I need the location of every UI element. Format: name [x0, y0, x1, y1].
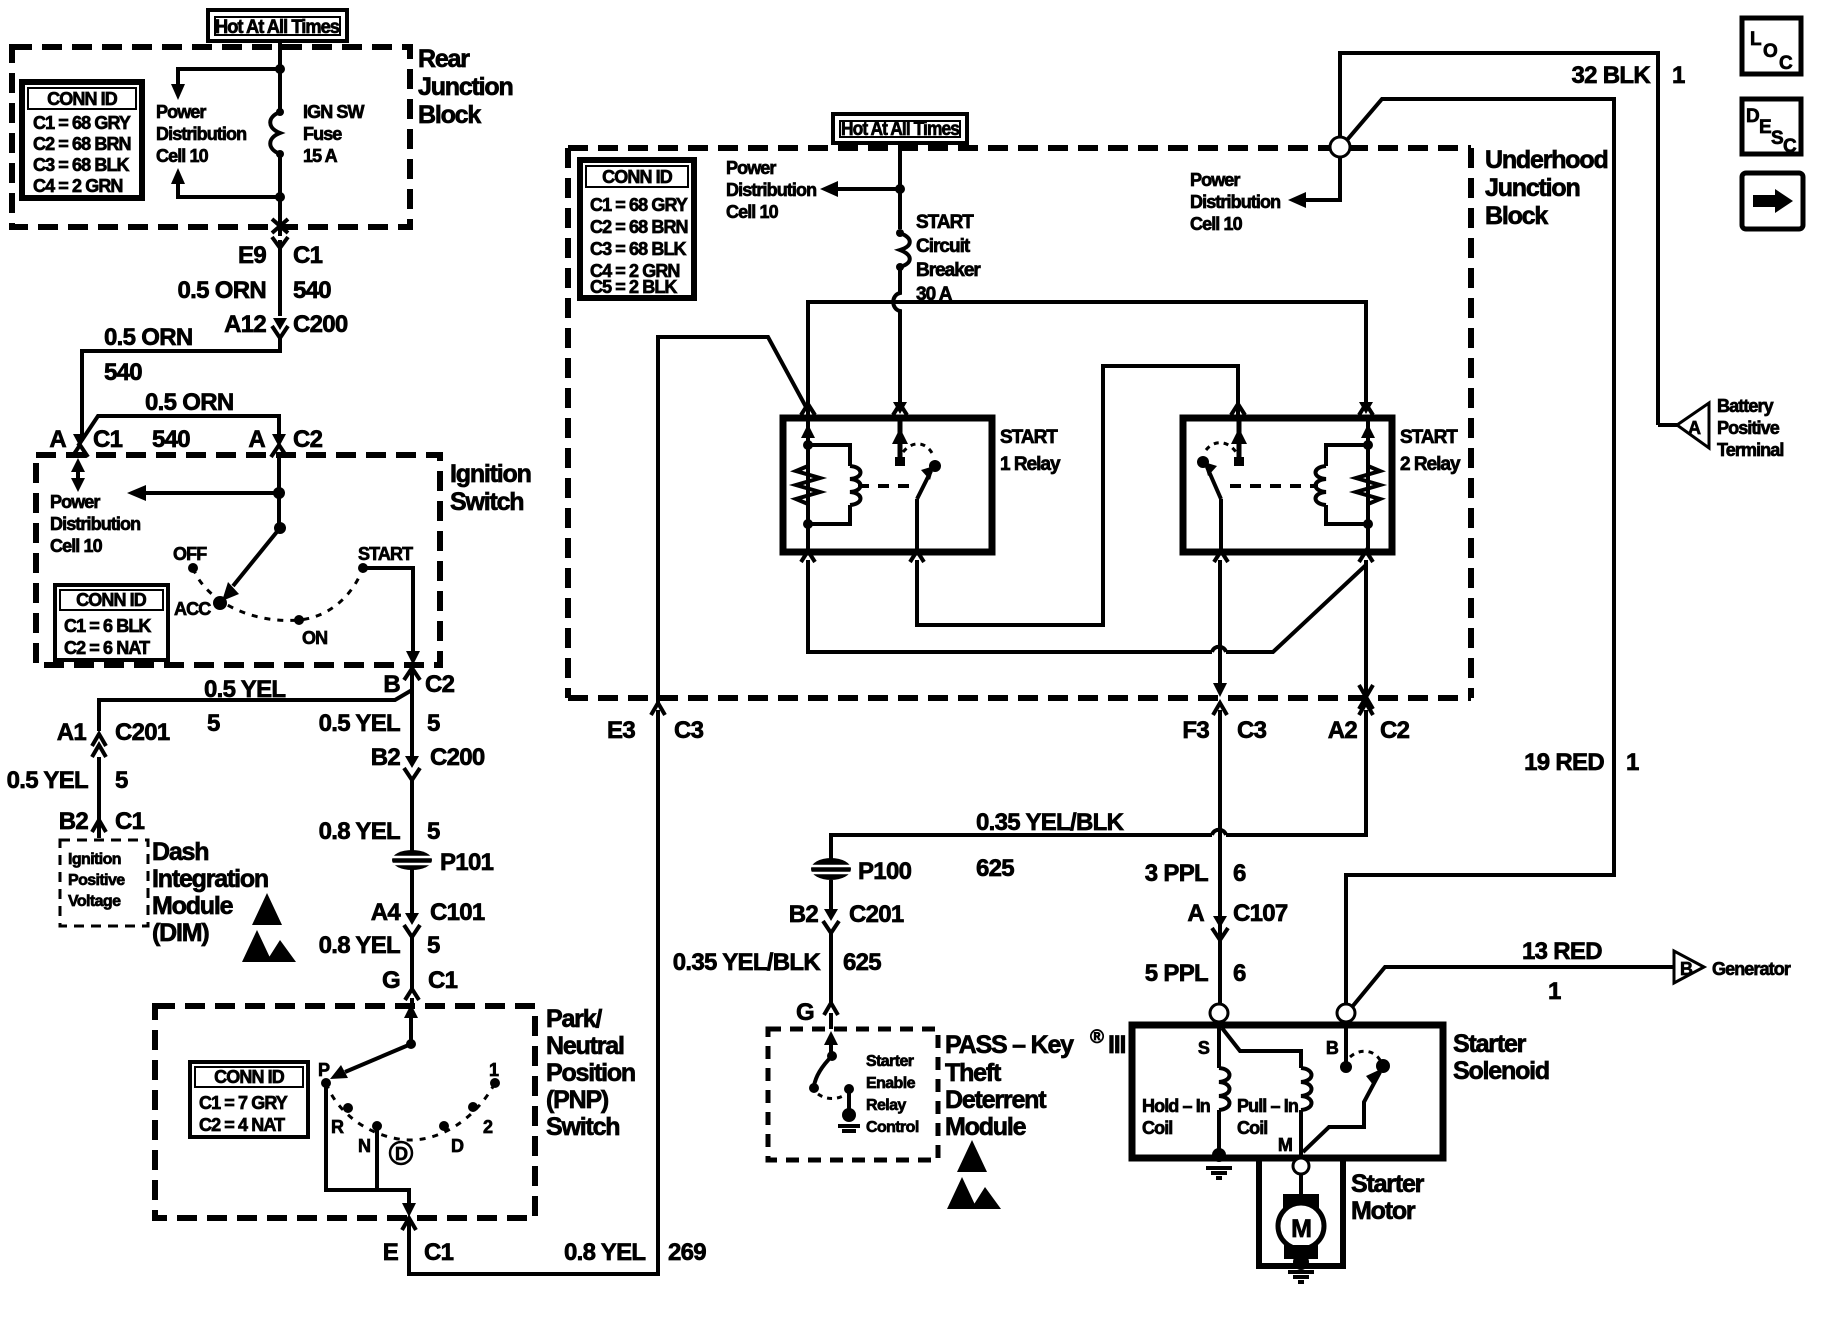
svg-text:Position: Position [546, 1059, 635, 1087]
label START 1 Relay [1000, 427, 1061, 475]
forward arrow reference box [1742, 173, 1803, 229]
label Underhood Junction Block [1485, 146, 1608, 230]
svg-text:E3: E3 [607, 717, 635, 744]
arrow: to power distribution (underhood) [820, 181, 900, 197]
svg-text:Distribution: Distribution [50, 514, 140, 534]
label Power Distribution Cell 10 (ignition) [50, 492, 140, 556]
svg-text:Terminal: Terminal [1717, 440, 1784, 460]
PASS-Key dashed box [768, 1029, 938, 1160]
svg-text:Module: Module [945, 1113, 1027, 1141]
svg-text:D: D [395, 1144, 408, 1164]
svg-text:Cell 10: Cell 10 [50, 536, 103, 556]
svg-text:C1: C1 [115, 808, 145, 835]
svg-text:B2: B2 [59, 808, 89, 835]
svg-text:0.8 YEL: 0.8 YEL [319, 818, 400, 845]
svg-text:269: 269 [668, 1239, 706, 1266]
relay2 coil [1316, 445, 1369, 524]
splice ring (32 BLK junction on underhood block edge) [1330, 137, 1350, 157]
wire: fuse output exiting block [272, 154, 288, 236]
svg-text:B: B [1326, 1038, 1339, 1058]
connector G/C1 (PNP entry) [382, 967, 458, 1006]
wire: relay1 coil return to relay2 coil and A2 (hops F3 line) [808, 551, 1373, 709]
wire: breaker output to relay 1 switch (hops coil bus) [893, 267, 907, 415]
svg-text:G: G [382, 967, 400, 994]
connector G (PASS-Key entry) [824, 1003, 838, 1029]
svg-text:CONN ID: CONN ID [47, 89, 118, 109]
svg-text:(DIM): (DIM) [152, 919, 209, 947]
svg-text:CONN ID: CONN ID [76, 590, 147, 610]
svg-text:A: A [1187, 900, 1204, 927]
connector A2/C2 [1328, 703, 1410, 744]
Starter Solenoid box [1132, 1025, 1443, 1158]
label Starter Motor [1351, 1170, 1425, 1225]
svg-text:C1 = 68 GRY: C1 = 68 GRY [33, 113, 131, 133]
svg-text:C4 = 2 GRN: C4 = 2 GRN [33, 176, 123, 196]
svg-text:C: C [1779, 53, 1793, 74]
svg-text:B: B [383, 671, 400, 698]
svg-text:Power: Power [726, 158, 776, 178]
fuse IGN SW Fuse 15 A [270, 108, 284, 158]
terminal S ring [1210, 1004, 1228, 1022]
svg-text:Starter: Starter [1453, 1030, 1527, 1058]
terminal M ring [1293, 1158, 1309, 1174]
svg-text:Circuit: Circuit [916, 236, 971, 257]
svg-text:0.5 YEL: 0.5 YEL [7, 767, 88, 794]
connector A4/C101 [371, 899, 485, 937]
svg-text:Positive: Positive [1717, 418, 1780, 438]
svg-text:Junction: Junction [1485, 174, 1580, 202]
svg-text:1: 1 [489, 1060, 499, 1080]
arrow: ignition to power distribution [127, 485, 279, 501]
svg-text:START: START [358, 544, 413, 564]
ground (hold-in coil) [1206, 1168, 1232, 1178]
svg-text:5: 5 [427, 818, 440, 845]
wire label 0.5 ORN 540 (vertical run) [178, 248, 332, 316]
svg-text:E9: E9 [238, 242, 266, 269]
arrow: right power distribution [1288, 157, 1340, 208]
svg-text:ON: ON [302, 628, 327, 648]
wire 0.8 YEL 269 (bottom run to E3) [409, 710, 706, 1274]
svg-text:C107: C107 [1233, 900, 1288, 927]
svg-text:15 A: 15 A [303, 146, 338, 166]
svg-text:OFF: OFF [173, 544, 207, 564]
svg-text:CONN ID: CONN ID [602, 167, 673, 187]
svg-text:C2: C2 [1380, 717, 1410, 744]
ignition switch contacts OFF ACC ON START [173, 544, 413, 648]
svg-text:START: START [916, 212, 974, 233]
svg-text:Hold – In: Hold – In [1142, 1096, 1210, 1116]
label Power Distribution Cell 10 (rear) [156, 102, 246, 166]
svg-text:A4: A4 [371, 899, 402, 926]
svg-text:Rear: Rear [418, 45, 470, 73]
svg-text:P100: P100 [858, 858, 912, 885]
label Power Distribution Cell 10 (right) [1190, 170, 1280, 234]
connector A12/C200 [224, 311, 348, 338]
svg-text:1: 1 [1548, 978, 1561, 1005]
connector B2/C1 [59, 808, 145, 838]
svg-text:Fuse: Fuse [303, 124, 342, 144]
svg-text:2: 2 [483, 1117, 493, 1137]
label Power Distribution Cell 10 (underhood) [726, 158, 816, 222]
svg-text:P: P [318, 1060, 330, 1080]
starter enable relay switch (PASS-Key) [809, 1031, 860, 1131]
svg-text:C200: C200 [293, 311, 348, 338]
connector A1/C201 [57, 719, 170, 757]
wire: P and N contacts to E/C1 [326, 1083, 416, 1217]
Hot At All Times box (rear junction block) [208, 10, 347, 41]
relay1 coil [808, 445, 861, 524]
PNP contacts P R N D D 2 1 [318, 1060, 500, 1164]
svg-text:Underhood: Underhood [1485, 146, 1608, 174]
svg-text:Park/: Park/ [546, 1005, 602, 1033]
svg-text:Ignition: Ignition [450, 460, 531, 488]
svg-text:Junction: Junction [418, 73, 513, 101]
svg-text:C200: C200 [430, 744, 485, 771]
svg-text:Ignition: Ignition [68, 851, 121, 868]
svg-text:Distribution: Distribution [726, 180, 816, 200]
connector F3/C3 [1182, 703, 1266, 744]
svg-text:C3: C3 [674, 717, 704, 744]
svg-text:Positive: Positive [68, 872, 125, 889]
svg-text:C5 = 2 BLK: C5 = 2 BLK [590, 277, 677, 297]
svg-text:Solenoid: Solenoid [1453, 1057, 1549, 1085]
connector E/C1 [383, 1218, 454, 1266]
svg-text:D: D [451, 1136, 464, 1156]
svg-text:B2: B2 [371, 744, 401, 771]
CONN ID table (underhood junction block) [580, 160, 694, 298]
label 5 PPL 6 [1145, 960, 1246, 987]
svg-text:R: R [331, 1117, 344, 1137]
svg-text:C1 = 7 GRY: C1 = 7 GRY [199, 1093, 288, 1113]
label IGN SW Fuse 15 A [303, 102, 365, 166]
svg-text:P101: P101 [440, 849, 494, 876]
wire: relay coil supply bus (relay1 coil to relay2 coil) [801, 302, 1373, 418]
wire 0.35 YEL/BLK 625 (to PASS-Key) [673, 933, 882, 1005]
wire 0.5 YEL 5 (DIM feed) [7, 757, 128, 820]
svg-text:32 BLK: 32 BLK [1572, 62, 1652, 89]
wire 19 RED (to starter solenoid B) [1346, 99, 1639, 1005]
svg-text:III: III [1108, 1031, 1125, 1059]
Starter Motor box [1259, 1158, 1343, 1266]
wire: jumper from A/C1 to A/C2 [78, 416, 279, 446]
svg-text:A1: A1 [57, 719, 87, 746]
starter motor symbol [1278, 1174, 1324, 1270]
svg-text:C201: C201 [115, 719, 170, 746]
svg-text:Dash: Dash [152, 838, 208, 866]
splice P101 [390, 845, 494, 913]
svg-text:C1: C1 [428, 967, 458, 994]
svg-text:Distribution: Distribution [156, 124, 246, 144]
ground (starter motor) [1288, 1272, 1314, 1282]
svg-text:C1: C1 [293, 242, 323, 269]
svg-text:540: 540 [152, 426, 190, 453]
Ignition Positive Voltage dashed box (DIM) [60, 840, 148, 926]
svg-text:6: 6 [1233, 860, 1246, 887]
label Starter Solenoid [1453, 1030, 1549, 1085]
label Starter Enable Relay Control [866, 1053, 919, 1136]
wire: orange feed down-left to ignition switch [82, 338, 280, 441]
Underhood Junction Block dashed box [568, 148, 1471, 698]
svg-text:ACC: ACC [174, 599, 211, 619]
CONN ID table (rear junction block) [22, 82, 142, 198]
svg-text:Enable: Enable [866, 1075, 916, 1092]
svg-text:B2: B2 [789, 901, 819, 928]
svg-text:A: A [248, 426, 265, 453]
svg-text:L: L [1750, 29, 1762, 50]
svg-text:G: G [796, 999, 814, 1026]
svg-text:D: D [1746, 106, 1759, 127]
svg-text:C: C [1783, 136, 1797, 157]
wire: ignition feed from A/C2 [273, 455, 286, 534]
svg-text:C2 = 4 NAT: C2 = 4 NAT [199, 1115, 285, 1135]
svg-text:IGN SW: IGN SW [303, 102, 365, 122]
wire: START output to B/C2 [363, 568, 420, 665]
svg-text:0.8 YEL: 0.8 YEL [319, 932, 400, 959]
connector A/C1 [49, 426, 122, 457]
svg-text:®: ® [1090, 1027, 1104, 1048]
connector B/C2 [383, 668, 454, 698]
START 1 Relay box [783, 418, 992, 552]
svg-text:START: START [1000, 427, 1058, 448]
connector E3/C3 [607, 703, 704, 744]
svg-text:M: M [1278, 1135, 1292, 1155]
svg-text:B: B [1680, 959, 1693, 979]
svg-text:Neutral: Neutral [546, 1032, 624, 1060]
svg-text:Distribution: Distribution [1190, 192, 1280, 212]
svg-text:E: E [1759, 117, 1771, 138]
battery positive terminal triangle A [1658, 403, 1709, 448]
svg-text:O: O [1763, 41, 1777, 62]
label START Circuit Breaker 30 A [916, 212, 981, 305]
terminal B ring [1337, 1004, 1355, 1022]
svg-text:Motor: Motor [1351, 1197, 1416, 1225]
svg-text:C1: C1 [424, 1239, 454, 1266]
pull-in coil [1222, 1028, 1312, 1158]
svg-text:C201: C201 [849, 901, 904, 928]
svg-text:C2: C2 [293, 426, 323, 453]
svg-text:START: START [1400, 427, 1458, 448]
connector B2/C201 [789, 880, 904, 933]
DESC reference box [1742, 99, 1801, 157]
svg-text:S: S [1771, 128, 1783, 149]
svg-text:S: S [1198, 1038, 1210, 1058]
svg-text:540: 540 [104, 359, 142, 386]
connector A/C107 [1187, 900, 1288, 940]
svg-text:13 RED: 13 RED [1522, 938, 1602, 965]
svg-text:1: 1 [1672, 62, 1685, 89]
Rear Junction Block dashed box [12, 47, 410, 227]
svg-text:Generator: Generator [1712, 959, 1791, 979]
svg-text:Power: Power [50, 492, 100, 512]
wire 0.8 YEL 5 (upper) [319, 780, 440, 845]
svg-text:N: N [358, 1136, 370, 1156]
svg-text:C3 = 68 BLK: C3 = 68 BLK [590, 239, 687, 259]
label Ignition Switch [450, 460, 531, 516]
generator triangle B [1674, 951, 1704, 983]
svg-text:Deterrent: Deterrent [945, 1086, 1047, 1114]
svg-text:Cell 10: Cell 10 [1190, 214, 1243, 234]
solenoid contact switch [1303, 1022, 1390, 1152]
svg-text:Starter: Starter [1351, 1170, 1425, 1198]
svg-text:0.35 YEL/BLK: 0.35 YEL/BLK [673, 949, 822, 976]
svg-text:Relay: Relay [866, 1097, 906, 1114]
svg-text:Coil: Coil [1237, 1118, 1267, 1138]
svg-text:5: 5 [427, 932, 440, 959]
label Park/Neutral Position (PNP) Switch [546, 1005, 635, 1141]
svg-text:Battery: Battery [1717, 396, 1774, 416]
wire 32 BLK to battery positive terminal [1340, 53, 1685, 425]
svg-text:Control: Control [866, 1119, 919, 1136]
svg-text:3 PPL: 3 PPL [1145, 860, 1208, 887]
wire 0.5 YEL 5 (main yellow run) [319, 686, 440, 760]
LOC reference box [1742, 18, 1801, 74]
connector B2/C200 [371, 744, 485, 780]
svg-text:A12: A12 [224, 311, 266, 338]
wire: battery feed (underhood) [895, 143, 905, 229]
label Hold-In Coil [1142, 1096, 1210, 1138]
svg-text:C1: C1 [93, 426, 123, 453]
svg-text:0.5 ORN: 0.5 ORN [178, 277, 266, 304]
hold-in coil [1212, 1022, 1230, 1162]
svg-text:5: 5 [427, 710, 440, 737]
wire: E3 feed to relay 1 coil [658, 337, 806, 703]
svg-text:C2: C2 [425, 671, 455, 698]
svg-text:E: E [383, 1239, 399, 1266]
svg-text:Cell 10: Cell 10 [726, 202, 779, 222]
Park/Neutral Position (PNP) Switch dashed box [155, 1006, 535, 1218]
svg-text:0.5 YEL: 0.5 YEL [204, 676, 285, 703]
svg-text:Block: Block [1485, 202, 1548, 230]
relay2 resistor [1356, 418, 1380, 552]
label PASS-Key III Theft Deterrent Module [945, 1027, 1125, 1141]
label 0.5 ORN 540 (upper horizontal) [104, 324, 192, 386]
wire 0.8 YEL 5 (lower) [319, 932, 440, 990]
svg-text:Switch: Switch [546, 1113, 619, 1141]
wire 13 RED 1 to generator [1352, 938, 1674, 1007]
svg-text:C2 = 6 NAT: C2 = 6 NAT [64, 638, 150, 658]
svg-text:Pull – In: Pull – In [1237, 1096, 1298, 1116]
svg-text:Voltage: Voltage [68, 893, 121, 910]
svg-text:(PNP): (PNP) [546, 1086, 609, 1114]
svg-text:C3: C3 [1237, 717, 1267, 744]
svg-text:Power: Power [156, 102, 206, 122]
PNP switch arm [330, 1004, 418, 1079]
svg-text:M: M [1291, 1215, 1311, 1243]
svg-text:0.8 YEL: 0.8 YEL [564, 1239, 645, 1266]
svg-text:C1 = 68 GRY: C1 = 68 GRY [590, 195, 688, 215]
circuit breaker START Circuit Breaker 30 A [896, 229, 910, 271]
ESD symbol (DIM) [242, 893, 296, 962]
svg-text:625: 625 [976, 855, 1014, 882]
svg-text:0.5 ORN: 0.5 ORN [104, 324, 192, 351]
svg-text:Block: Block [418, 101, 481, 129]
svg-text:Starter: Starter [866, 1053, 914, 1070]
svg-text:F3: F3 [1182, 717, 1209, 744]
svg-text:Hot At All Times: Hot At All Times [215, 17, 339, 38]
svg-text:0.35 YEL/BLK: 0.35 YEL/BLK [976, 809, 1125, 836]
svg-text:6: 6 [1233, 960, 1246, 987]
label Rear Junction Block [418, 45, 513, 129]
connector A/C2 [152, 426, 323, 457]
svg-text:Cell 10: Cell 10 [156, 146, 209, 166]
relay1 resistor [796, 418, 820, 552]
wire 0.35 YEL/BLK 625 from A2 to splice P100 (hops F3 line) [831, 710, 1366, 882]
label Battery Positive Terminal [1717, 396, 1784, 460]
ignition switch arm [222, 528, 280, 601]
svg-text:540: 540 [293, 277, 331, 304]
svg-text:5 PPL: 5 PPL [1145, 960, 1208, 987]
svg-text:1 Relay: 1 Relay [1000, 454, 1061, 475]
svg-text:CONN ID: CONN ID [214, 1067, 285, 1087]
CONN ID table (PNP switch) [190, 1062, 308, 1137]
svg-text:Theft: Theft [945, 1059, 1002, 1087]
svg-text:0.5 ORN: 0.5 ORN [145, 389, 233, 416]
ESD symbol (PASS-Key) [947, 1140, 1001, 1209]
svg-text:PASS – Key: PASS – Key [945, 1031, 1074, 1059]
Ignition Switch dashed box [36, 455, 440, 665]
svg-text:Coil: Coil [1142, 1118, 1172, 1138]
START 2 Relay box [1183, 418, 1392, 552]
wire: F3 to starter solenoid S terminal [1145, 710, 1246, 1005]
svg-text:Hot At All Times: Hot At All Times [841, 119, 959, 140]
svg-text:C3 = 68 BLK: C3 = 68 BLK [33, 155, 130, 175]
Hot At All Times box (underhood) [833, 114, 967, 143]
svg-text:Module: Module [152, 892, 234, 920]
label Dash Integration Module (DIM) [152, 838, 268, 947]
splice P100 [809, 858, 912, 885]
relay2 switch [1197, 418, 1318, 552]
svg-text:2 Relay: 2 Relay [1400, 454, 1461, 475]
label Pull-In Coil [1237, 1096, 1298, 1138]
svg-text:C1 = 6 BLK: C1 = 6 BLK [64, 616, 151, 636]
relay1 switch [858, 418, 941, 552]
connector E9/C1 [238, 237, 323, 269]
arrow: power distribution double arrow (ignition) [71, 458, 85, 492]
svg-text:A: A [49, 426, 66, 453]
svg-text:Switch: Switch [450, 488, 523, 516]
svg-text:C2 = 68 BRN: C2 = 68 BRN [33, 134, 131, 154]
label START 2 Relay [1400, 427, 1461, 475]
svg-text:0.5 YEL: 0.5 YEL [319, 710, 400, 737]
wire: power distribution return arrow (rear) [171, 168, 285, 202]
svg-text:Breaker: Breaker [916, 260, 981, 281]
svg-text:A2: A2 [1328, 717, 1358, 744]
wire 0.5 YEL to DIM branch [99, 676, 412, 737]
wire: relay2 output to F3 [1213, 551, 1228, 697]
wire: relay1 output to relay2 switch input [801, 366, 1245, 625]
svg-text:Power: Power [1190, 170, 1240, 190]
wire: battery feed into rear junction block [275, 41, 285, 110]
svg-text:C2 = 68 BRN: C2 = 68 BRN [590, 217, 688, 237]
svg-text:C101: C101 [430, 899, 485, 926]
svg-text:A: A [1688, 418, 1701, 438]
svg-text:Integration: Integration [152, 865, 268, 893]
CONN ID table (ignition switch) [55, 585, 168, 660]
svg-text:625: 625 [843, 949, 881, 976]
svg-text:5: 5 [115, 767, 128, 794]
svg-text:19 RED: 19 RED [1524, 749, 1604, 776]
wire: power distribution branch (rear) [171, 69, 280, 100]
svg-text:1: 1 [1626, 749, 1639, 776]
svg-text:5: 5 [207, 710, 220, 737]
